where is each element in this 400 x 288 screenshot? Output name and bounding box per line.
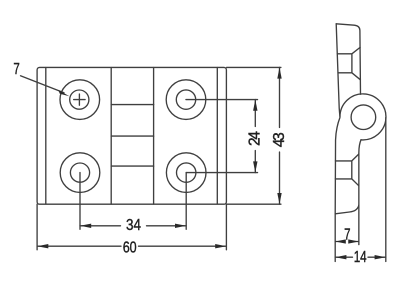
svg-text:34: 34 xyxy=(126,217,141,234)
hinge front view outer plate outline xyxy=(37,67,226,204)
dim line 34 xyxy=(80,225,186,227)
extension left leaf face for 7 and 14 dims xyxy=(334,214,336,262)
knuckle segment line 1 xyxy=(111,104,153,106)
dim line 7 side view xyxy=(335,241,359,243)
knuckle segment line 3 xyxy=(111,165,153,167)
dim line 14 xyxy=(335,256,386,258)
extension of bottom edge for 43 dim xyxy=(227,203,281,205)
right leaf inner edge line xyxy=(216,68,218,204)
arrow leader 7 dia xyxy=(58,90,69,96)
center cross top-left hole xyxy=(74,94,85,105)
hole bottom-right inner xyxy=(177,163,196,182)
arrow 24 down xyxy=(253,161,257,172)
extension of top edge for 43 dim xyxy=(227,66,281,68)
center line below bottom-right hole xyxy=(185,173,187,230)
arrow 14 right xyxy=(375,255,386,259)
side view lower leaf right edge xyxy=(359,140,361,206)
side view upper leaf left edge xyxy=(336,24,340,117)
arrow 34 left xyxy=(80,224,91,228)
knuckle segment line 2 xyxy=(111,135,153,137)
dim line 24 xyxy=(254,100,256,173)
hole top-left outer xyxy=(60,80,100,120)
arrow 43 down xyxy=(277,193,281,204)
side view upper countersink hole xyxy=(337,47,360,79)
extension right leaf face for 7 dim xyxy=(358,205,360,244)
dim line 43 xyxy=(279,67,281,204)
arrow 14 left xyxy=(335,255,346,259)
arrow 7 side right xyxy=(348,239,359,243)
knuckle right line xyxy=(153,68,155,205)
arrow 60 left xyxy=(37,244,48,248)
side view lower leaf bottom edge xyxy=(335,205,359,214)
leader line for 7 dia xyxy=(21,76,65,93)
hole bottom-left outer xyxy=(60,153,100,193)
center line below bottom-left hole xyxy=(79,173,81,230)
arrow 7 side left xyxy=(335,239,346,243)
side view lower countersink hole xyxy=(335,154,359,186)
extension of right edge for 60 dim xyxy=(225,204,227,250)
knuckle outer barrel arc xyxy=(340,94,386,140)
arrow 24 up xyxy=(253,100,257,111)
side view upper leaf top edge xyxy=(336,24,360,94)
arrowheads xyxy=(37,67,386,259)
hole bottom-left inner xyxy=(70,163,89,182)
svg-text:24: 24 xyxy=(247,131,264,146)
hole top-left inner xyxy=(70,90,89,109)
extension knuckle right for 14 dim xyxy=(385,118,387,262)
side view lower leaf left edge xyxy=(335,118,340,214)
svg-text:7: 7 xyxy=(13,61,19,78)
knuckle left line xyxy=(110,68,112,205)
extension of left edge for 60 dim xyxy=(36,204,38,250)
hole top-right inner xyxy=(176,90,195,109)
hole top-right outer xyxy=(166,80,206,120)
svg-text:14: 14 xyxy=(354,249,367,266)
svg-text:43: 43 xyxy=(271,132,288,147)
arrow 43 up xyxy=(277,67,281,78)
dim line 60 xyxy=(37,245,226,247)
svg-text:60: 60 xyxy=(123,240,137,257)
center leader right of top-right hole xyxy=(186,99,258,101)
knuckle pin hole xyxy=(351,105,376,130)
svg-text:7: 7 xyxy=(344,226,350,243)
arrow 60 right xyxy=(215,244,226,248)
center leader right of bottom-right hole xyxy=(186,172,257,174)
arrow 34 right xyxy=(175,224,186,228)
left leaf inner edge line xyxy=(45,68,47,204)
hole bottom-right outer xyxy=(166,153,206,193)
